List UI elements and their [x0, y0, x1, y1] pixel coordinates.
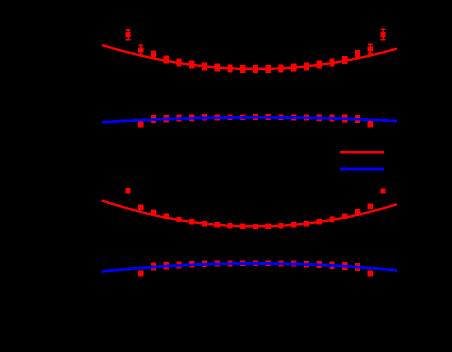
bottom red point 11	[266, 224, 271, 229]
top red point 13	[291, 65, 296, 70]
top blue-line errorbar 14	[304, 114, 309, 120]
bottom blue-line point 10	[253, 261, 258, 266]
top red fit curve	[102, 45, 397, 69]
legend red line	[340, 151, 384, 153]
bottom blue-line point 18	[355, 264, 360, 269]
bottom red errorbar 16	[329, 217, 334, 222]
top red point 10	[253, 66, 258, 71]
top blue-line errorbar 19	[368, 121, 373, 127]
top red point 11	[266, 66, 271, 71]
bottom blue-line errorbar 11	[266, 260, 271, 266]
bottom red point 19	[368, 204, 373, 209]
top red point 15	[317, 62, 322, 67]
bottom blue-line errorbar 9	[240, 260, 245, 266]
top blue-line point 18	[355, 116, 360, 121]
bottom red errorbar 15	[317, 219, 322, 224]
bottom red point 8	[227, 223, 232, 228]
bottom red point 4	[176, 217, 181, 222]
top red errorbar 15	[317, 61, 322, 69]
bottom red point 3	[164, 214, 169, 219]
bottom blue-line errorbar 14	[304, 261, 309, 267]
top red errorbar 3	[164, 55, 169, 63]
top red errorbar 4	[176, 59, 181, 67]
bottom red point 1	[138, 205, 143, 210]
top red point 16	[329, 60, 334, 65]
top red errorbar 6	[202, 62, 207, 70]
top blue-line errorbar 9	[240, 114, 245, 120]
top blue-line point 3	[164, 116, 169, 121]
bottom red errorbar 6	[202, 221, 207, 226]
top red errorbar 11	[266, 65, 271, 73]
top red point 0	[125, 32, 130, 37]
bottom red errorbar 10	[253, 224, 258, 229]
top red errorbar 20	[381, 29, 386, 39]
bottom red point 14	[304, 221, 309, 226]
top red errorbar 7	[215, 64, 220, 72]
bottom blue-line point 13	[291, 261, 296, 266]
top red errorbar 10	[253, 65, 258, 73]
top red point 20	[380, 32, 385, 37]
bottom red errorbar 8	[227, 223, 232, 228]
top blue-line errorbar 5	[189, 114, 194, 121]
top red errorbar 2	[151, 51, 156, 59]
bottom blue-line point 4	[176, 262, 181, 267]
top red point 2	[151, 52, 156, 57]
top red errorbar 16	[329, 59, 334, 67]
top blue-line point 19	[368, 122, 373, 127]
bottom blue-line point 1	[138, 271, 143, 276]
bottom blue-line errorbar 12	[278, 261, 283, 267]
top blue fit curve	[102, 117, 397, 122]
top red point 4	[176, 60, 181, 65]
bottom blue-line point 19	[368, 271, 373, 276]
bottom blue-line errorbar 18	[355, 263, 360, 271]
bottom blue-line point 6	[202, 261, 207, 266]
top red errorbar 9	[240, 65, 245, 73]
top blue-line point 8	[227, 115, 232, 120]
bottom red point 18	[355, 209, 360, 214]
bottom red errorbar 2	[151, 210, 156, 215]
top red point 8	[227, 66, 232, 71]
top blue-line errorbar 15	[317, 114, 322, 121]
bottom blue-line errorbar 4	[176, 261, 181, 268]
top red errorbar 17	[342, 56, 347, 64]
bottom red point 20	[380, 189, 385, 194]
bottom red errorbar 3	[164, 214, 169, 219]
bottom red point 16	[329, 217, 334, 222]
bottom red point 12	[278, 223, 283, 228]
bottom red errorbar 11	[266, 224, 271, 229]
top blue-line point 5	[189, 115, 194, 120]
top blue-line errorbar 17	[342, 115, 347, 123]
top blue-line point 17	[342, 116, 347, 121]
bottom red point 17	[342, 214, 347, 219]
bottom blue-line point 12	[278, 261, 283, 266]
bottom blue-line errorbar 13	[291, 261, 296, 267]
top blue-line errorbar 16	[329, 115, 334, 122]
top blue-line point 9	[240, 115, 245, 120]
top red errorbar 0	[126, 30, 131, 40]
top blue-line point 2	[151, 117, 156, 122]
bottom blue-line errorbar 5	[189, 261, 194, 268]
bottom red errorbar 12	[278, 223, 283, 228]
bottom blue-line point 5	[189, 262, 194, 267]
top red point 19	[368, 46, 373, 51]
top red errorbar 19	[368, 44, 373, 53]
bottom red point 6	[202, 221, 207, 226]
bottom red point 9	[240, 224, 245, 229]
top blue-line point 13	[291, 115, 296, 120]
bottom blue-line point 2	[151, 264, 156, 269]
bottom red errorbar 5	[189, 219, 194, 224]
bottom red point 13	[291, 222, 296, 227]
top blue-line point 6	[202, 115, 207, 120]
top blue-line errorbar 18	[355, 115, 360, 123]
bottom red errorbar 9	[240, 224, 245, 229]
top blue-line point 10	[253, 115, 258, 120]
top red point 5	[189, 62, 194, 67]
top blue-line errorbar 12	[278, 114, 283, 120]
top red errorbar 1	[138, 45, 143, 54]
legend blue line	[340, 168, 384, 171]
top blue-line point 7	[215, 115, 220, 120]
bottom blue-line point 8	[227, 261, 232, 266]
bottom red fit curve	[102, 200, 397, 226]
top red errorbar 8	[227, 64, 232, 72]
top red errorbar 12	[278, 64, 283, 72]
bottom blue-line point 16	[329, 263, 334, 268]
top blue-line errorbar 4	[176, 115, 181, 122]
top red point 12	[278, 66, 283, 71]
bottom blue-line errorbar 6	[202, 261, 207, 267]
top blue-line point 14	[304, 115, 309, 120]
top blue-line errorbar 1	[138, 121, 143, 127]
top blue-line errorbar 13	[291, 114, 296, 120]
top red errorbar 14	[304, 62, 309, 70]
bottom red point 7	[215, 222, 220, 227]
top red point 1	[138, 48, 143, 53]
top blue-line errorbar 11	[266, 114, 271, 120]
bottom blue-line errorbar 8	[227, 261, 232, 267]
bottom red point 15	[317, 219, 322, 224]
top blue-line errorbar 6	[202, 114, 207, 120]
top red point 17	[342, 57, 347, 62]
top blue-line point 11	[266, 115, 271, 120]
bottom red errorbar 13	[291, 222, 296, 227]
top blue-line errorbar 2	[151, 115, 156, 123]
top red errorbar 18	[355, 50, 360, 58]
top blue-line errorbar 7	[215, 114, 220, 120]
bottom red point 10	[253, 224, 258, 229]
top red point 7	[215, 65, 220, 70]
bottom red point 5	[189, 219, 194, 224]
bottom blue-line errorbar 16	[329, 262, 334, 269]
top red point 18	[355, 52, 360, 57]
top blue-line point 15	[317, 115, 322, 120]
top red point 14	[304, 64, 309, 69]
bottom blue-line errorbar 3	[164, 262, 169, 270]
bottom red errorbar 19	[368, 204, 373, 209]
bottom red point 2	[151, 210, 156, 215]
bottom red errorbar 18	[355, 209, 360, 214]
bottom blue fit curve	[102, 263, 397, 271]
bottom blue-line errorbar 2	[151, 262, 156, 270]
bottom blue-line point 11	[266, 261, 271, 266]
bottom blue-line point 17	[342, 263, 347, 268]
top blue-line errorbar 3	[164, 115, 169, 123]
bottom blue-line point 3	[164, 263, 169, 268]
bottom red errorbar 4	[176, 217, 181, 222]
bottom blue-line errorbar 1	[138, 270, 143, 276]
bottom blue-line errorbar 15	[317, 261, 322, 268]
bottom blue-line errorbar 19	[368, 270, 373, 276]
bottom blue-line point 9	[240, 261, 245, 266]
top red point 3	[164, 57, 169, 62]
bottom red errorbar 14	[304, 221, 309, 226]
bottom blue-line point 7	[215, 261, 220, 266]
top blue-line point 12	[278, 115, 283, 120]
top blue-line errorbar 8	[227, 114, 232, 120]
bottom blue-line point 14	[304, 262, 309, 267]
bottom blue-line errorbar 10	[253, 260, 258, 266]
top blue-line point 4	[176, 116, 181, 121]
top blue-line point 16	[329, 116, 334, 121]
bottom red errorbar 7	[215, 222, 220, 227]
top red point 9	[240, 66, 245, 71]
top blue-line point 1	[138, 122, 143, 127]
bottom red errorbar 1	[138, 205, 143, 210]
top blue-line errorbar 10	[253, 114, 258, 120]
bottom red errorbar 17	[342, 214, 347, 219]
top red errorbar 13	[291, 64, 296, 72]
top red point 6	[202, 64, 207, 69]
bottom blue-line errorbar 17	[342, 262, 347, 270]
bottom red point 0	[125, 188, 130, 193]
bottom blue-line errorbar 7	[215, 261, 220, 267]
bottom blue-line point 15	[317, 262, 322, 267]
top red errorbar 5	[189, 61, 194, 69]
